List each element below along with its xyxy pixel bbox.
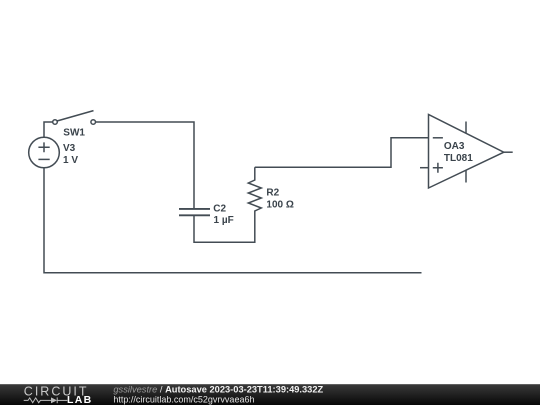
svg-text:TL081: TL081 [444,153,473,164]
op-amp plus symbol [433,163,443,173]
op-amp OA3 triangle [429,115,504,189]
op-amp minus symbol [433,137,443,139]
svg-text:1 V: 1 V [63,155,78,166]
op-amp bottom power pin [465,170,467,183]
switch SW1 [53,111,96,125]
svg-text:http://circuitlab.com/c52gvrvv: http://circuitlab.com/c52gvrvvaea6h [113,394,254,404]
svg-text:1 µF: 1 µF [214,215,234,226]
svg-text:100 Ω: 100 Ω [266,200,293,211]
voltage source V3 [29,137,60,168]
logo wire squiggle [24,397,68,403]
wire V3 bottom rail [44,168,422,273]
op-amp output wire [504,151,513,153]
svg-text:R2: R2 [266,188,279,199]
resistor R2 [248,167,261,213]
wire resistor top to op-amp inverting input [255,138,429,168]
svg-text:OA3: OA3 [444,141,465,152]
svg-text:LAB: LAB [67,394,92,405]
wire switch to capacitor top [96,122,195,208]
svg-text:C2: C2 [213,203,226,214]
capacitor C2 [179,209,210,215]
wire capacitor bottom to resistor bottom [194,214,255,243]
wire V3 top to switch [44,122,53,138]
svg-text:SW1: SW1 [63,128,85,139]
svg-text:V3: V3 [63,143,76,154]
op-amp top power pin [465,122,467,134]
footer bar [0,384,540,405]
op-amp plus input stub [420,167,429,169]
svg-text:gssilvestre / Autosave 2023-03: gssilvestre / Autosave 2023-03-23T11:39:… [113,385,323,395]
